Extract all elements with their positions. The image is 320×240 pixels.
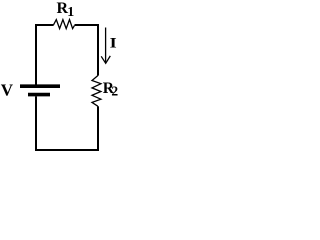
battery V: long top plate (positive) [20,84,60,88]
label R2 [103,80,119,99]
label I [110,34,117,51]
resistor R1 (zigzag, top wire) [53,20,74,29]
current arrow I (downward, right of top-right corner) [101,28,110,64]
wire: right vertical segment below R2 to bottom-right corner [36,106,98,150]
battery V: short bottom plate (negative) [28,93,50,97]
svg-text:2: 2 [111,84,118,99]
label R1 [57,0,75,20]
svg-text:V: V [1,81,14,100]
svg-text:I: I [110,34,117,51]
resistor R2 (vertical zigzag, right wire) [92,76,101,107]
svg-text:1: 1 [67,5,74,20]
wire: top-right horizontal segment (R1 right lead to top-right corner) [75,25,99,76]
wire: top-left horizontal segment (corner to R1 left lead) [36,25,53,86]
wire: bottom-left vertical segment (battery bottom to corner) [35,96,37,151]
